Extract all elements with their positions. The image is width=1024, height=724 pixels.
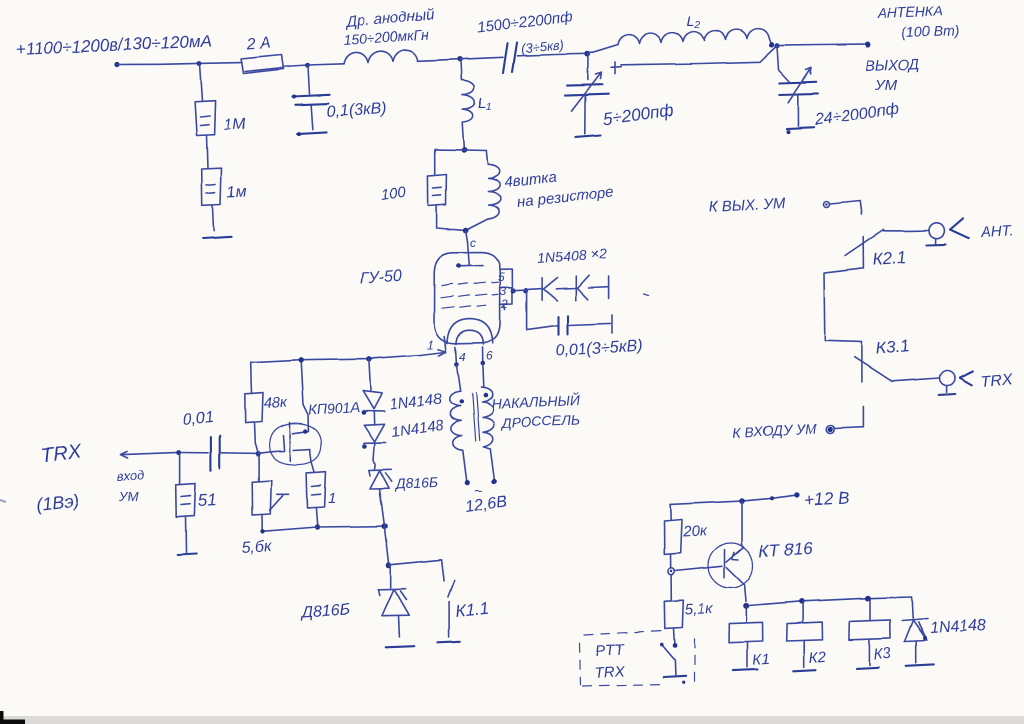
end bar of cap branch [611, 315, 613, 333]
relay coil K1 [729, 622, 763, 642]
resistor R 51 [176, 484, 196, 517]
node bottom rail diode stack dot [382, 523, 388, 529]
wire cap to end bar [569, 323, 610, 325]
svg-text:К1: К1 [752, 651, 770, 669]
node tune cap junction [585, 51, 591, 57]
wire link line under L2 [621, 48, 775, 65]
svg-text:(100 Вт): (100 Вт) [902, 22, 960, 40]
svg-text:5,1к: 5,1к [684, 600, 714, 618]
svg-text:5: 5 [498, 270, 505, 284]
wire supply to fuse [117, 63, 242, 65]
svg-text:51: 51 [197, 490, 217, 510]
svg-text:ТRX: ТRX [980, 371, 1015, 391]
wire output to terminal [777, 45, 864, 46]
transistor Q KT816 circle [708, 543, 753, 588]
wire block to tube anode pin c [466, 231, 468, 242]
scanner gray band bottom [0, 716, 1024, 724]
wire pin box to diodes [513, 289, 543, 291]
wire diode 2 to end bar [588, 286, 609, 289]
svg-text:6: 6 [486, 349, 493, 363]
svg-text:ГУ-50: ГУ-50 [359, 268, 402, 287]
ground cap 0.1 [297, 132, 326, 134]
wire K2 to ground [803, 641, 805, 667]
svg-text:ВЫХОД: ВЫХОД [865, 56, 921, 75]
filament choke core lines [472, 393, 479, 441]
diode VD 1N4148 no.1 [363, 391, 385, 411]
svg-text:АНТЕНКА: АНТЕНКА [877, 3, 944, 21]
wire pin 6 to choke [483, 364, 484, 388]
resistor R 5.6k lead [258, 455, 260, 481]
tube GU-50 envelope [434, 253, 500, 344]
arrow variable cap 1 [572, 73, 602, 112]
wire pin 4 to filament choke [456, 365, 460, 392]
fuse F1 2A [241, 55, 284, 74]
svg-text:0,01: 0,01 [182, 409, 215, 429]
wire cap to C5 node [517, 54, 588, 56]
wire K1 to ground [747, 642, 749, 667]
relay coil K1 lead [745, 606, 747, 622]
wire rail to lower node [384, 527, 388, 565]
node parallel block top [461, 147, 467, 153]
svg-text:PTT: PTT [595, 641, 626, 660]
wire K3.1 to TRX connector [892, 378, 940, 381]
diode VD zener D816B lower [378, 589, 409, 616]
inductor 4 turns on resistor [466, 151, 501, 231]
node cap junction [305, 63, 310, 68]
connector TRX ground [946, 386, 948, 393]
svg-text:К2: К2 [808, 649, 827, 667]
wire between stack diodes [373, 411, 375, 425]
wire var cap 1 to bar [584, 96, 586, 134]
wire parallel block top bar [435, 149, 486, 152]
ground bar var cap 1 [576, 135, 601, 137]
svg-text:К3.1: К3.1 [875, 337, 910, 358]
wire resistor divider drop [200, 64, 203, 102]
ground bar var cap 2 [786, 127, 814, 128]
node gate junction [255, 451, 260, 456]
resistor R 20k lead [669, 504, 672, 520]
connector ANT circle [929, 223, 944, 238]
transistor KT816 emitter arrow [726, 547, 744, 562]
diode VD zener D816B [369, 469, 392, 488]
capacitor C 0.01 input plates [211, 436, 220, 471]
relay coil K3 [849, 620, 890, 640]
wire between diodes [556, 287, 576, 290]
end bar grid bias line [608, 276, 610, 299]
wire choke right to 12.6V terminal [490, 449, 494, 480]
filament choke left winding [450, 391, 463, 450]
ground 51 [177, 554, 196, 555]
svg-text:c: c [470, 236, 476, 250]
wire choke to L1 node [418, 59, 460, 61]
ground K2 [793, 670, 815, 671]
wire +12V rail [670, 495, 796, 504]
svg-text:К3: К3 [873, 645, 892, 663]
wire zener to bottom rail [380, 488, 385, 525]
ground K3 [857, 667, 879, 668]
wire K2.1 to ANT connector [884, 230, 929, 232]
wire diode to ground [915, 641, 917, 663]
trimmer arrow on 5.6k [270, 494, 289, 510]
resistor R 1M lower [202, 168, 222, 205]
wire node to anode choke [308, 64, 345, 65]
svg-text:TRX: TRX [40, 441, 83, 467]
wire base [675, 566, 722, 571]
node top rail drain junction [299, 357, 304, 362]
diode VD 1N4148 relay clamp [902, 619, 928, 642]
relay contact K3.1 pole lead [861, 342, 863, 382]
relay contact K2.1 arm [845, 229, 884, 256]
wire pin 6 lead [482, 347, 484, 363]
wire K1.1 to ground [448, 602, 450, 637]
ground K1.1 [438, 641, 460, 642]
node collector junction [743, 603, 749, 609]
svg-text:TRX: TRX [594, 663, 626, 682]
svg-text:2 А: 2 А [245, 34, 271, 53]
svg-text:К1.1: К1.1 [454, 599, 489, 621]
node junction 1M divider [197, 61, 202, 66]
inductor Dr anode choke [344, 50, 418, 64]
transistor Q KP901A envelope [270, 424, 322, 465]
wire 5.6k to bottom rail [261, 515, 263, 531]
switch PTT arm [661, 644, 676, 675]
wire cap to gate node [180, 452, 258, 455]
resistor R 5.1k lead [670, 575, 672, 601]
cathode arc inner [456, 330, 483, 344]
wire var cap 2 to bar [797, 96, 799, 126]
wire 20k to base node [670, 554, 672, 568]
relay contact K1.1 arm [448, 581, 454, 598]
svg-text:Д816Б: Д816Б [299, 601, 350, 621]
svg-text:1N4148: 1N4148 [929, 617, 986, 637]
tick plus mark at link left end [611, 62, 621, 74]
node relay rail dots [799, 599, 805, 605]
wire pin 1 lead [444, 337, 446, 353]
svg-text:УМ: УМ [874, 77, 898, 94]
wire diode stack top lead [369, 359, 371, 391]
wire rail corner to 48k [250, 363, 253, 393]
wire between 1M resistors [207, 136, 208, 169]
node terminal K VHODU UM [828, 427, 833, 432]
variable capacitor C 24-2000pF plates [780, 82, 818, 95]
wire fuse to cap node [284, 65, 308, 67]
resistor R 48k [245, 393, 263, 424]
svg-text:L₁: L₁ [478, 95, 491, 112]
transistor KT816 base bar [724, 550, 726, 578]
wire terminal to K2.1 [830, 201, 862, 215]
svg-text:5,бк: 5,бк [241, 538, 273, 557]
ground zener lower [386, 646, 415, 647]
svg-text:вход: вход [116, 467, 145, 484]
node supply input dot [114, 62, 119, 67]
wire anode lead [468, 242, 470, 266]
node input junction [176, 450, 181, 455]
transistor KT816 emitter lead [742, 501, 744, 547]
cathode arc outer [447, 319, 493, 344]
dashed box PTT TRX [580, 631, 695, 687]
resistor R 5.1k [664, 600, 683, 628]
relay contact K3.1 arm [855, 357, 892, 381]
wire common bus K2.1 to K3.1 [824, 268, 863, 342]
anode bar inside tube [458, 265, 483, 268]
wire to ground [212, 205, 213, 231]
variable capacitor C 5-200pF lead [587, 55, 589, 80]
connector ANT plug arrow [950, 218, 968, 238]
transistor KP901A gate [259, 436, 285, 454]
transistor KP901A channel [289, 423, 291, 461]
svg-text:1м: 1м [226, 183, 247, 201]
svg-text:+12 В: +12 В [804, 488, 850, 510]
node source rail junction [315, 524, 320, 529]
connector TRX circle [940, 371, 955, 386]
wire K3 to ground [868, 640, 870, 665]
faint edge mark [0, 500, 6, 502]
wire K3.1 lower lead [834, 406, 863, 428]
wire input with arrow tip [120, 452, 179, 459]
svg-text:4: 4 [459, 350, 466, 364]
arrow variable cap 2 [788, 68, 811, 103]
svg-text:2: 2 [501, 297, 509, 311]
resistor R 5.6k [252, 481, 271, 515]
relay contact K2.1 pole lead [862, 237, 864, 268]
ground diode [906, 664, 934, 665]
wire 5.1k to PTT switch [673, 628, 676, 644]
node +12V terminal [795, 492, 800, 497]
wire top rail with arrow to pin 1 [251, 349, 446, 362]
resistor R 1 source [307, 472, 326, 508]
transistor KT816 collector [727, 567, 747, 601]
wire pin 4 lead [455, 347, 456, 364]
node top rail diode junction [366, 356, 371, 361]
inductor L2 [618, 29, 771, 45]
svg-text:УМ: УМ [118, 489, 138, 504]
diode VD 1N5408 no.1 [542, 278, 557, 301]
svg-text:48к: 48к [263, 394, 289, 412]
svg-text:1М: 1М [223, 116, 247, 134]
wire node up to L2 start [588, 45, 618, 54]
node output terminal [865, 42, 871, 48]
resistor R 1M upper [195, 101, 216, 136]
svg-text:L₂: L₂ [686, 13, 700, 30]
resistor R 20k [664, 520, 682, 554]
node K1.1 branch junction [386, 562, 392, 568]
node grid wire junctions [511, 288, 516, 293]
node parallel block bottom [463, 228, 469, 234]
node bottom rail left dot [260, 529, 264, 533]
grid dashes row 1 [441, 282, 498, 285]
resistor R 51 lead [179, 454, 181, 485]
wire source resistor to rail [316, 508, 317, 526]
capacitor C 0.1 plates [293, 95, 330, 105]
relay coil K3 lead [870, 599, 872, 620]
capacitor C 0.1 3kV drop [308, 67, 310, 95]
inductor L1 [461, 60, 475, 149]
wire to zener [374, 443, 376, 469]
grid dashes row 3 [441, 305, 486, 308]
diode VD zener D816B lower lead [390, 566, 392, 588]
resistor R 100 (in parallel block) [428, 149, 466, 230]
ground PTT [664, 676, 686, 677]
diode VD 1N5408 no.2 [576, 275, 589, 300]
transistor KP901A drain stub and lead [293, 361, 309, 434]
black corner mark bottom-left [0, 711, 25, 724]
svg-text:АНТ.: АНТ. [979, 222, 1014, 241]
wire cap 0.01 branch down [527, 292, 557, 330]
node L2 output junction [769, 42, 774, 47]
svg-text:К2.1: К2.1 [872, 248, 907, 269]
node terminal K VYH UM [824, 201, 830, 207]
ground divider [203, 237, 231, 239]
svg-text:Д816Б: Д816Б [393, 474, 438, 492]
relay coil K2 [786, 622, 822, 641]
svg-text:1: 1 [427, 338, 434, 352]
diode VD 1N4148 no.2 [364, 424, 386, 443]
wire cap to ground [311, 105, 313, 129]
relay coil K2 lead [802, 602, 804, 623]
wire choke left to 12.6V terminal [463, 450, 467, 481]
capacitor C 0.01 3-5kV plates [559, 316, 569, 335]
connector TRX plug arrow [960, 371, 973, 385]
variable capacitor C 24-2000pF lead [777, 46, 790, 83]
filament choke right winding [482, 388, 494, 449]
node 12V rail dots [739, 498, 745, 504]
variable capacitor C 5-200pF plates [565, 85, 609, 96]
small stray mark [644, 294, 649, 296]
node base junction (open) [668, 568, 674, 574]
transistor KP901A source stub and lead [294, 450, 315, 472]
svg-text:1: 1 [328, 490, 336, 507]
wire L1 node to coupling cap [460, 57, 503, 59]
capacitor C 1500-2200pF plates [503, 43, 517, 73]
svg-text:20к: 20к [681, 523, 708, 541]
ground K1 [733, 669, 758, 670]
wire 48k to gate node [254, 423, 258, 453]
svg-text:100: 100 [380, 184, 408, 204]
pin box bracket 5-3-2 [500, 269, 513, 309]
connector ANT ground [935, 238, 937, 243]
svg-text:КТ 816: КТ 816 [758, 539, 813, 561]
wire bottom rail [262, 526, 384, 531]
wire branch to K1.1 [389, 560, 444, 581]
wire zener lower to ground [398, 615, 401, 637]
node L1 junction [457, 57, 463, 63]
wire 51 to ground [185, 517, 188, 553]
grid dashes row 2 [440, 294, 498, 297]
wire relay rail [749, 597, 913, 618]
